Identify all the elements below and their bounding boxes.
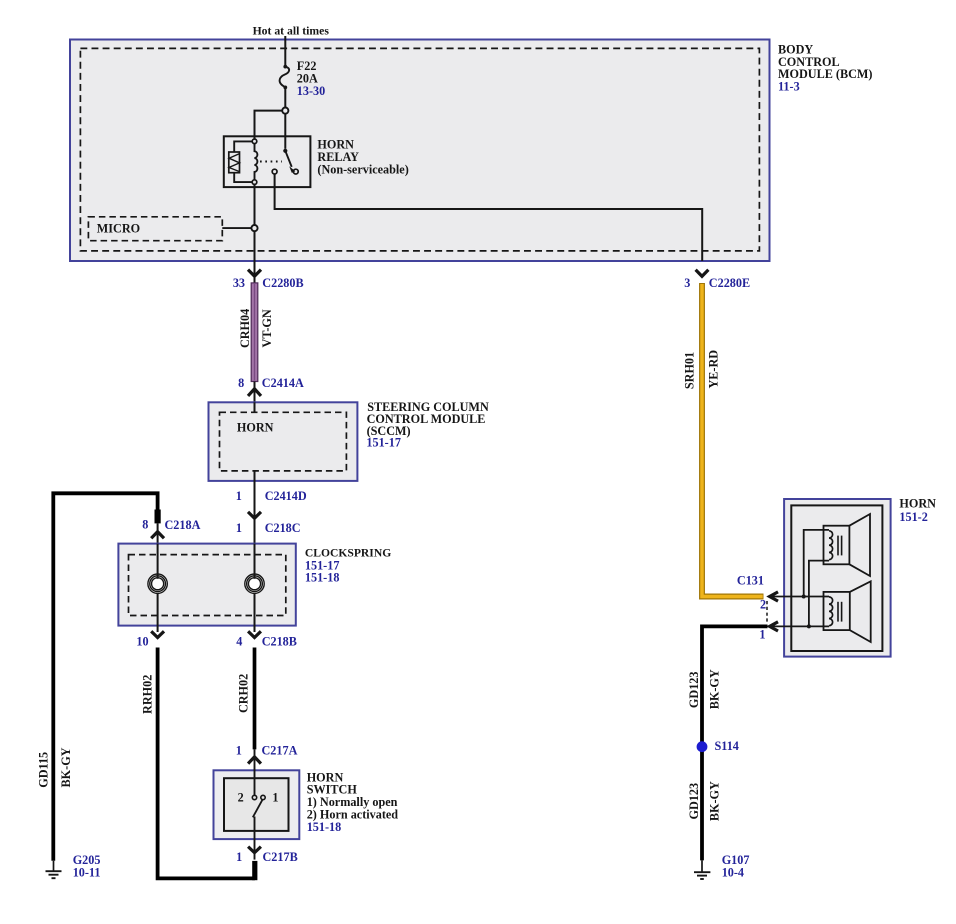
bottom horn speaker body (824, 592, 850, 630)
relay actuation dotted link (260, 161, 282, 163)
junction: top horn lead to pin2 (802, 595, 806, 599)
wire: junction to relay switch (284, 114, 286, 149)
relay coil top terminal (252, 139, 257, 144)
horn switch arm (253, 800, 263, 818)
wire SRH01 YE-RD (yellow) (702, 283, 764, 597)
SCCM module box (209, 402, 358, 481)
svg-text:151-2: 151-2 (899, 510, 927, 524)
connector arrow pin10 (151, 631, 164, 637)
wire: pin2 into horn (770, 596, 829, 598)
wire RRH02 (thick) (158, 648, 255, 879)
svg-text:VT-GN: VT-GN (260, 309, 274, 347)
connector arrow C218A (151, 532, 164, 539)
svg-text:151-17: 151-17 (366, 435, 401, 449)
wire CRH04 VT-GN (violet) (251, 283, 258, 382)
relay switch arm (285, 151, 291, 167)
svg-text:10-11: 10-11 (73, 865, 101, 879)
top horn magnet (837, 536, 839, 556)
wire: resistor top to coil top (234, 141, 252, 152)
horn switch label (307, 770, 399, 834)
relay coil bottom terminal (252, 180, 257, 185)
wire: micro to junction (222, 227, 251, 229)
connector arrow C2280E (696, 270, 709, 277)
wire: violet to SCCM (254, 382, 256, 413)
svg-text:151-18: 151-18 (305, 571, 340, 585)
svg-text:SRH01: SRH01 (683, 352, 697, 389)
wire: C218A into clockspring (157, 523, 159, 545)
svg-text:10: 10 (136, 635, 148, 649)
clockspring right coil symbol (245, 574, 264, 593)
wire: fuse to junction (284, 87, 286, 107)
clockspring label (305, 547, 391, 585)
bottom horn magnet (837, 602, 839, 622)
relay NO contact (293, 169, 298, 174)
svg-text:C218B: C218B (262, 635, 297, 649)
svg-text:2: 2 (760, 598, 766, 612)
svg-text:RRH02: RRH02 (141, 675, 155, 714)
relay output terminal (272, 169, 277, 174)
svg-text:MICRO: MICRO (97, 221, 140, 235)
svg-text:S114: S114 (715, 739, 739, 753)
wire: into switch contact (254, 769, 256, 795)
horn switch box (214, 770, 300, 839)
connector arrow C217B (248, 847, 261, 853)
ground G107 (694, 860, 710, 879)
MICRO box (88, 217, 222, 241)
connector arrow C2414D/C218C (248, 512, 261, 518)
wire: junction to relay coil branch (255, 111, 283, 139)
wire: SCCM to clockspring (254, 471, 256, 545)
svg-text:11-3: 11-3 (778, 80, 800, 94)
horn relay box (224, 136, 311, 187)
wire: resistor bottom to coil bottom (234, 173, 252, 182)
wire: switch to C217B (254, 817, 256, 860)
svg-text:C217A: C217A (262, 743, 298, 757)
svg-text:10-4: 10-4 (722, 866, 744, 880)
junction: top horn lead to pin1 (807, 624, 811, 628)
connector arrow C2280B (248, 270, 261, 277)
svg-text:CRH02: CRH02 (237, 674, 251, 713)
wire: top horn top lead (804, 530, 829, 597)
svg-text:1: 1 (236, 521, 242, 535)
bottom horn flare (850, 581, 871, 642)
junction terminal below fuse (282, 108, 288, 114)
svg-text:CRH04: CRH04 (238, 309, 252, 348)
svg-text:C2414D: C2414D (265, 489, 307, 503)
top horn speaker body (824, 526, 850, 565)
svg-text:GD115: GD115 (37, 752, 51, 788)
wire: battery feed into BCM (284, 36, 286, 67)
svg-text:33: 33 (233, 276, 245, 290)
horn switch contact 2 (252, 795, 256, 799)
BCM module box (70, 40, 770, 262)
svg-text:GD123: GD123 (687, 672, 701, 709)
svg-text:C218A: C218A (165, 518, 201, 532)
svg-text:1: 1 (236, 850, 242, 864)
SCCM label (366, 400, 489, 450)
wire: right into coil (254, 544, 256, 579)
svg-text:(Non-serviceable): (Non-serviceable) (317, 162, 408, 176)
wire: top horn bottom lead (809, 561, 829, 627)
wire: into horn switch (254, 749, 256, 795)
svg-text:C2414A: C2414A (262, 376, 304, 390)
wire: right coil to C218B (254, 593, 256, 632)
wire: into SCCM (254, 402, 256, 412)
bottom horn coil (829, 597, 833, 626)
svg-text:1: 1 (236, 489, 242, 503)
wire GD123 to ground (thick) (702, 626, 768, 860)
connector arrow C218B (248, 631, 261, 637)
svg-text:13-30: 13-30 (297, 84, 325, 98)
relay switch pivot (283, 149, 287, 153)
horn switch contact 1 (261, 795, 265, 799)
svg-text:C217B: C217B (263, 850, 298, 864)
top horn flare (849, 514, 870, 576)
relay coil (255, 144, 258, 180)
svg-text:8: 8 (142, 518, 148, 532)
svg-text:C131: C131 (737, 574, 764, 588)
wire: relay output down right to BCM exit (275, 174, 703, 261)
svg-text:151-18: 151-18 (307, 820, 342, 834)
svg-text:1: 1 (272, 791, 278, 805)
svg-text:8: 8 (238, 376, 244, 390)
svg-text:BK-GY: BK-GY (707, 781, 721, 821)
svg-text:2: 2 (238, 791, 244, 805)
wire: C218A connector stub (fat) (155, 510, 161, 524)
ground loop wire GD115 (thick) (53, 493, 157, 861)
svg-text:BK-GY: BK-GY (707, 669, 721, 709)
svg-text:1: 1 (236, 743, 242, 757)
connector arrow C131 pin1 (770, 622, 778, 631)
wire: pin1 into horn (770, 625, 829, 627)
horn module box (784, 499, 891, 657)
wire: left into coil (157, 544, 159, 579)
relay resistor (229, 152, 240, 173)
clockspring left coil symbol (148, 574, 167, 593)
BCM label (778, 43, 872, 94)
splice S114 (697, 741, 708, 752)
svg-text:BK-GY: BK-GY (59, 747, 73, 787)
connector arrow C217A (248, 757, 261, 764)
svg-text:YE-RD: YE-RD (706, 350, 720, 389)
wire: left coil to pin10 (157, 593, 159, 632)
svg-text:GD123: GD123 (687, 783, 701, 820)
top horn coil (829, 531, 833, 560)
connector arrow C2414A (248, 389, 261, 396)
fuse F22 20A 13-30 (280, 59, 326, 98)
connector C131 dashed link (766, 601, 768, 623)
wire CRH02 (thick) (253, 648, 257, 750)
wire: relay coil to C2280B (254, 184, 256, 225)
svg-text:HORN: HORN (899, 497, 936, 511)
svg-text:C2280B: C2280B (262, 276, 303, 290)
micro junction terminal (251, 225, 257, 231)
svg-text:1: 1 (759, 628, 765, 642)
svg-text:HORN: HORN (237, 420, 274, 434)
relay label (317, 138, 408, 177)
svg-text:C2280E: C2280E (709, 276, 750, 290)
svg-text:C218C: C218C (265, 521, 301, 535)
clockspring box (118, 544, 295, 626)
connector arrow C131 pin2 (770, 592, 778, 601)
wire: C217B stub (thick) (252, 861, 257, 880)
svg-text:3: 3 (684, 276, 690, 290)
ground G205 (46, 861, 62, 878)
svg-text:4: 4 (236, 635, 242, 649)
svg-text:Hot at all times: Hot at all times (253, 25, 330, 38)
